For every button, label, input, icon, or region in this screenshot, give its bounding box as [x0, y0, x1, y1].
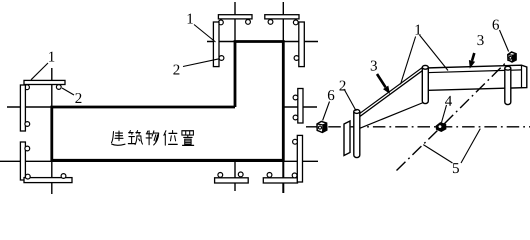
batter board B6 horizontal (bottom-right corner): [263, 178, 297, 183]
stake S1 (left cylinder): [354, 110, 360, 158]
angled board front face: [357, 69, 425, 128]
batter board B7 vertical (mid-right): [298, 89, 303, 124]
label 3 right: [477, 35, 483, 45]
label 1 top: [188, 14, 193, 24]
label 2 left: [75, 93, 81, 103]
arrow 3 left (thick arrow to angled board): [377, 74, 390, 94]
char 物: [146, 131, 159, 145]
stake circle (corner, shared): [25, 85, 30, 90]
stake circle: [293, 115, 298, 120]
label 1 right: [416, 25, 421, 35]
stake circle (corner, shared): [219, 20, 224, 25]
label 2 top: [173, 65, 179, 75]
label 6 left: [328, 90, 334, 100]
leader line label 6 left: [323, 102, 330, 121]
char 建: [112, 131, 126, 145]
axis line mid-left (y=107): [7, 106, 52, 108]
arrow 3 right (thick arrow to horizontal board): [469, 53, 475, 69]
leader line label 1 right-B: [420, 35, 449, 71]
char 置: [182, 131, 194, 146]
stake circle: [293, 95, 298, 100]
control stake 6a (small cube on axis): [317, 121, 327, 132]
horizontal board end separator: [521, 65, 523, 88]
label 6 right: [493, 20, 499, 30]
axis line diagonal dash-dot: [397, 58, 512, 171]
stake S2 (corner cylinder): [422, 65, 428, 103]
angled board top surface: [357, 66, 425, 119]
leader line label 1 top: [194, 25, 216, 43]
horizontal board body: [425, 65, 527, 90]
stake circle: [238, 172, 243, 177]
stake S3 (right cylinder): [505, 66, 511, 104]
label 3 left: [371, 61, 377, 71]
stake circle: [56, 85, 61, 90]
leader line label 2 left: [62, 88, 74, 95]
text 建筑物位置 (hand-drawn strokes): [112, 131, 194, 146]
stake circle: [294, 56, 299, 61]
axis line bottom (y=161.3): [0, 160, 318, 162]
leader line label 6 right: [500, 30, 509, 52]
leader line label 1 left: [31, 63, 48, 80]
stake circle: [219, 56, 224, 61]
batter board B3 horizontal (mid-left corner): [24, 80, 65, 84]
axis vertical x=283.3 bottom extension: [282, 160, 284, 193]
batter board B5 horizontal (bottom-middle): [215, 178, 249, 183]
stake circle (corner, shared): [293, 20, 298, 25]
axis line mid-right (y=107): [283, 106, 317, 108]
leader line label 4: [442, 105, 447, 123]
axis line top (y=41.5): [207, 41, 318, 43]
axis vertical x=235 bottom extension: [234, 160, 236, 191]
leader line label 1 right-A: [401, 37, 416, 85]
label 4: [445, 96, 452, 106]
char 位: [164, 131, 177, 146]
stake circle: [218, 173, 223, 178]
batter board B4 vertical (bottom-left corner): [20, 142, 25, 180]
building outline (L-shaped thick walls): [52, 42, 283, 161]
batter board B3 vertical (mid-left corner): [20, 85, 25, 131]
stake circle: [25, 122, 30, 127]
axis line vertical left (x=51.8): [51, 68, 53, 194]
stake circle: [246, 20, 251, 25]
char 筑: [128, 131, 142, 145]
leader line label 2 top: [183, 59, 219, 67]
stake circle (corner, shared): [292, 173, 297, 178]
batter board B1 horizontal (top-left corner): [218, 15, 252, 19]
batter board B2 horizontal (top-right corner): [265, 15, 299, 19]
batter board B4 horizontal (bottom-left corner): [24, 178, 72, 183]
leader line label 5-B: [461, 129, 480, 163]
nail 4 (small black peg at axis crossing): [436, 123, 446, 132]
board end plank E1: [344, 121, 350, 156]
stake circle: [61, 174, 66, 179]
leader line label 5-A: [423, 145, 452, 163]
stake circle: [267, 173, 272, 178]
stake circle (corner, shared): [25, 174, 30, 179]
batter board B6 vertical (bottom-right corner): [297, 135, 302, 182]
horizontal board top front edge: [425, 70, 522, 73]
batter board B2 vertical (top-right corner): [299, 22, 305, 67]
stake circle: [293, 139, 298, 144]
axis line horizontal dash-dot: [306, 126, 530, 128]
axis vertical x=283.3 top extension: [282, 2, 284, 42]
stake circle: [268, 20, 273, 25]
label 1 left: [49, 52, 54, 62]
axis vertical x=235 top extension: [234, 2, 236, 42]
stake circle: [25, 146, 30, 151]
label 5: [453, 163, 459, 173]
batter board B1 vertical (top-left corner): [213, 22, 219, 67]
label 2 right: [340, 81, 346, 91]
leader line label 2 right: [344, 89, 356, 111]
control stake 6b (small cube upper right): [508, 52, 516, 62]
